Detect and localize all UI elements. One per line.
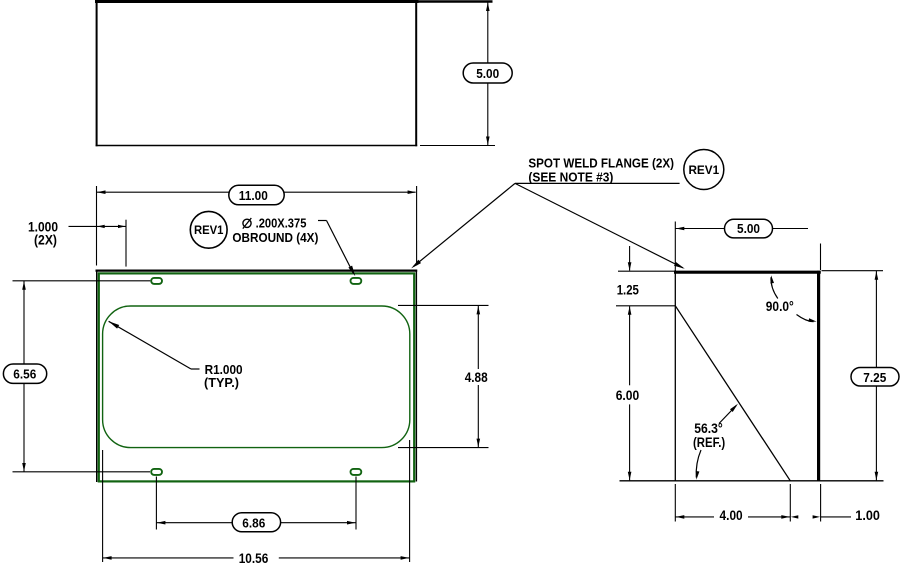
top view: 5.00 dim text [476, 66, 499, 81]
front view: obround note leader line [318, 221, 354, 274]
front view: 6.86 dimension line [156, 522, 356, 524]
front view: OBROUND (4X) note text [232, 230, 318, 245]
front view: R1.000 leader arrow [109, 321, 120, 328]
front view: diameter symbol of obround note [243, 218, 252, 229]
svg-text:6.00: 6.00 [616, 388, 640, 403]
front view: .200X.375 note text [256, 215, 307, 230]
side view: left edge [674, 270, 676, 481]
front view: green inner rounded-rectangle opening R1.000 [103, 306, 410, 448]
side view: 90.0 deg arrow right [808, 318, 816, 322]
side view: 1.25 top extension line [618, 270, 676, 272]
top view: 5.00 extension line bottom [420, 145, 495, 147]
front view: 11.00 arrow right [408, 190, 417, 194]
svg-text:4.00: 4.00 [720, 508, 743, 523]
top view: box right edge [415, 0, 417, 146]
front view: 6.86 dim text [242, 515, 265, 530]
side view: 5.00 left extension line (up from left edge) [674, 222, 676, 270]
front view: obround slot top-left [151, 278, 162, 284]
svg-text:(SEE NOTE #3): (SEE NOTE #3) [528, 169, 613, 184]
svg-text:OBROUND (4X): OBROUND (4X) [232, 230, 318, 245]
top view: box bottom edge [96, 145, 418, 147]
front view: 10.56 right extension line [409, 440, 411, 562]
side view: 1.00 arrow left (inside) [791, 515, 799, 518]
front view: 1.000 dim text [28, 220, 58, 235]
svg-text:SPOT WELD FLANGE (2X): SPOT WELD FLANGE (2X) [528, 155, 674, 170]
note: (SEE NOTE #3) text [528, 169, 613, 184]
side view: 7.25 arrow down [875, 472, 879, 481]
front view: 6.56 dim text [13, 367, 36, 382]
front view: obround slot bottom-left [151, 469, 162, 475]
side view: 90.0 deg leader arc right [797, 315, 814, 322]
front view: 4.88 top extension line [398, 304, 489, 306]
side view: 4.00 left extension line [674, 484, 676, 522]
side view: REF leader arc [696, 450, 701, 478]
front view: 6.56 bottom extension line [13, 471, 151, 473]
side view: 4.00 right extension line [789, 484, 791, 522]
front view: 4.88 dimension line [477, 306, 479, 448]
front view: 10.56 arrow left [103, 556, 112, 560]
side view: bottom edge with extension lines [620, 480, 884, 482]
side view: 4.00 arrow left [676, 515, 685, 519]
side view: REF leader arrow down [696, 471, 700, 480]
side view: 56.3 leader line [719, 406, 736, 424]
note: spot weld underline [515, 182, 680, 184]
front view: 1.000 right extension line [125, 220, 127, 267]
side view: 4.00 dimension line right [748, 516, 790, 518]
side view: 1.25 bottom extension line [616, 305, 676, 307]
note: spot weld leader line to side view [515, 183, 683, 268]
svg-text:.200X.375: .200X.375 [256, 215, 307, 230]
front view: 1.000 dimension line [69, 225, 127, 227]
side view: 5.00 dimension line [675, 228, 725, 230]
svg-text:6.56: 6.56 [13, 367, 36, 382]
top view: 5.00 extension line top (thick) [419, 0, 493, 3]
side view: 1.25 dim text [617, 282, 640, 297]
front view: obround note leader arrow [348, 266, 355, 277]
side view: 4.00 dimension line left [675, 516, 714, 518]
front view: black top edge (thick) [96, 270, 418, 272]
front view: 11.00 left extension line [96, 186, 98, 266]
side view: 5.00 oval balloon [725, 219, 773, 238]
side view: 56.3 deg text [694, 421, 723, 436]
svg-text:(TYP.): (TYP.) [204, 375, 239, 390]
front view: 6.56 arrow down [22, 463, 26, 472]
front view: 11.00 right extension line [416, 186, 418, 266]
side view: 7.25 dimension line [875, 271, 877, 481]
side view: 90.0 deg text [766, 299, 794, 314]
front view: 10.56 dimension line right part [279, 557, 410, 559]
note: REV1 balloon text (spot weld) [688, 163, 719, 177]
front view: 6.86 oval balloon [232, 513, 280, 532]
side view: 1.25 arrow line above [629, 246, 631, 271]
top view: 5.00 dimension line [487, 2, 489, 146]
front view: 4.88 bottom extension line [398, 447, 489, 449]
svg-text:6.86: 6.86 [242, 515, 265, 530]
front view: 4.88 dim text [465, 370, 488, 385]
top view: box outline top edge (thick) [95, 0, 419, 3]
front view: obround slot top-right [351, 278, 362, 284]
side view: 5.00 dimension line tail [772, 228, 808, 230]
side view: 1.00 right extension line [820, 484, 822, 522]
front view: 10.56 dimension line left part [103, 557, 234, 559]
side view: 6.00 arrow up [628, 306, 632, 315]
note: spot weld leader arrow to front view [411, 260, 421, 269]
front view: 10.56 left extension line [102, 450, 104, 562]
front view: 6.86 arrow left [157, 521, 166, 525]
front view: 6.56 dimension line [23, 281, 25, 472]
svg-text:REV1: REV1 [194, 223, 224, 237]
front view: 6.86 right extension line [355, 477, 357, 530]
note: spot weld leader arrow to side view [674, 262, 685, 269]
front view: black left edge [96, 270, 98, 483]
note: SPOT WELD FLANGE (2X) text [528, 155, 674, 170]
front view: obround slot bottom-right [351, 469, 362, 475]
side view: 6.00 arrow down [628, 472, 632, 481]
front view: 4.88 text background [463, 369, 489, 385]
front view: R1.000 dim text [205, 362, 243, 377]
front view: (2X) dim text [34, 233, 57, 248]
svg-text:7.25: 7.25 [863, 370, 886, 385]
svg-text:10.56: 10.56 [239, 551, 269, 566]
svg-text:5.00: 5.00 [737, 221, 760, 236]
front view: (TYP.) dim text [204, 375, 239, 390]
note: REV1 balloon circle (spot weld) [684, 150, 724, 190]
front view: 4.88 arrow up [477, 306, 481, 315]
front view: 10.56 dim text [239, 551, 269, 566]
front view: 6.86 left extension line [155, 477, 157, 530]
svg-text:1.25: 1.25 [617, 282, 640, 297]
front view: 6.56 top extension line [13, 280, 151, 282]
side view: 56.3 leader arrow [730, 404, 738, 412]
front view: 11.00 oval balloon [229, 185, 284, 205]
front view: R1.000 leader line [109, 321, 200, 369]
side view: 1.25 arrow pointing down [628, 262, 632, 271]
side view: top edge (thick) [674, 271, 821, 274]
front view: 6.56 arrow up [22, 281, 26, 290]
side view: 1.00 dim text [855, 508, 880, 523]
side view: 1.00 arrow right (inside) [813, 515, 821, 518]
side view: 4.00 dim text [720, 508, 743, 523]
front view: REV1 balloon text [194, 223, 224, 237]
front view: REV1 balloon circle [190, 211, 227, 248]
front view: 6.56 oval balloon [3, 364, 46, 383]
svg-text:90.0°: 90.0° [766, 299, 794, 314]
svg-text:REV1: REV1 [688, 163, 719, 177]
side view: right edge (thick) [817, 271, 820, 481]
svg-text:4.88: 4.88 [465, 370, 488, 385]
side view: (REF.) text [693, 435, 725, 450]
front view: 6.86 arrow right [347, 521, 356, 525]
side view: 6.00 dim text [616, 388, 640, 403]
side view: 7.25 oval balloon [851, 368, 899, 387]
front view: 1.000 arrow left [97, 225, 105, 228]
svg-text:(2X): (2X) [34, 233, 57, 248]
top view: 5.00 dim oval balloon [463, 63, 512, 83]
front view: black right edge [415, 270, 417, 482]
front view: green flange rectangle (thick) [99, 273, 414, 481]
side view: 6.00 dimension line lower [629, 404, 631, 480]
side view: 90.0 deg arrow up [770, 275, 774, 283]
side view: 5.00 arrow left [676, 227, 685, 231]
top view: box left edge [96, 0, 98, 146]
front view: 4.88 arrow down [477, 439, 481, 448]
top view: 5.00 dim arrow down [486, 137, 490, 146]
side view: 7.25 dim text [863, 370, 886, 385]
side view: diagonal bend edge 56.3 deg [675, 306, 790, 481]
front view: 10.56 arrow right [401, 556, 410, 560]
svg-text:1.00: 1.00 [855, 508, 880, 523]
svg-text:(REF.): (REF.) [693, 435, 725, 450]
svg-text:11.00: 11.00 [239, 188, 268, 203]
side view: 4.00 arrow right [781, 515, 790, 519]
note: spot weld leader line to front view [414, 183, 516, 266]
side view: 7.25 arrow up [875, 271, 879, 280]
front view: 11.00 dimension line [97, 191, 416, 193]
side view: 6.00 dimension line upper [629, 306, 631, 385]
side view: 90.0 deg leader arc up [771, 277, 778, 298]
side view: 7.25 top extension line [822, 270, 884, 272]
side view: 1.00 dimension tail line [821, 516, 851, 518]
front view: 1.000 arrow right [118, 225, 126, 228]
front view: 11.00 arrow left [97, 190, 106, 194]
top view: 5.00 dim arrow up [486, 3, 490, 12]
side view: 5.00 dim text [737, 221, 760, 236]
svg-text:5.00: 5.00 [476, 66, 499, 81]
side view: 5.00 right extension line [820, 244, 822, 271]
front view: 11.00 dim text [239, 188, 268, 203]
